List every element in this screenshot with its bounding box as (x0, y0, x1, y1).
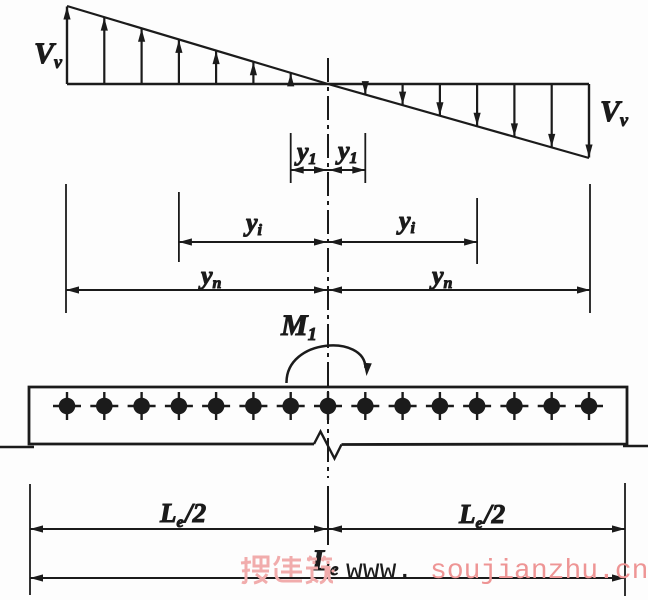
wire dim-bot-ext-left (29, 484, 31, 595)
wire dim-Le2-line (30, 528, 625, 530)
wire dim-y1-line (291, 169, 366, 171)
node bolt-11 (426, 392, 454, 420)
wire moment-arc M1 (286, 345, 365, 383)
node bolt-14 (538, 392, 566, 420)
node bolt-1 (53, 392, 81, 420)
wire flange-left (0, 446, 34, 448)
wire load-arrow-L1 (66, 7, 68, 85)
svg-text:Vv: Vv (34, 37, 63, 72)
node bolt-8 (314, 392, 342, 420)
wire load-arrow-R3 (439, 84, 441, 115)
svg-text:y1: y1 (335, 136, 358, 167)
wire dim-y1-ext-left (290, 133, 292, 183)
node bolt-12 (463, 392, 491, 420)
wire load-arrow-R5 (513, 84, 515, 136)
node bolt-5 (202, 392, 230, 420)
wire dim-y1-ext-right (364, 133, 366, 183)
node splice-plate (29, 387, 627, 445)
svg-text:y1: y1 (294, 137, 317, 168)
node bolt-3 (128, 392, 156, 420)
wire break-zigzag (314, 432, 342, 459)
wire dim-yi-ext-left (178, 192, 180, 262)
wire load-arrow-L4 (178, 40, 180, 84)
wire dim-yn-line (66, 289, 590, 291)
wire dim-yn-ext-left (65, 184, 67, 313)
wire load-arrow-R1 (364, 84, 366, 94)
wire load-arrow-R6 (551, 84, 553, 147)
node bolt-15 (575, 392, 603, 420)
node watermark (241, 557, 269, 583)
node bolt-4 (165, 392, 193, 420)
node bolt-9 (351, 392, 379, 420)
wire load-arrow-L7 (290, 73, 292, 84)
wire load-arrow-L6 (252, 62, 254, 84)
node centerline (327, 58, 329, 478)
node bolt-10 (389, 392, 417, 420)
svg-text:yi: yi (396, 206, 416, 237)
svg-text:Vv: Vv (600, 95, 629, 130)
wire load-arrow-R4 (476, 84, 478, 126)
wire dim-yi-ext-right (476, 198, 478, 264)
node bolt-7 (277, 392, 305, 420)
node bolt-13 (500, 392, 528, 420)
wire dim-Le-line (30, 577, 625, 579)
svg-text:yi: yi (243, 208, 263, 239)
wire flange-right (623, 445, 648, 447)
svg-text:www. soujianzhu.cn: www. soujianzhu.cn (346, 556, 648, 587)
svg-text:Le/2: Le/2 (159, 498, 206, 531)
node bolt-2 (90, 392, 118, 420)
wire load-arrow-L3 (141, 29, 143, 84)
wire load-arrow-L5 (215, 51, 217, 84)
wire dim-bot-ext-right (624, 483, 626, 596)
svg-text:yn: yn (198, 261, 222, 292)
svg-text:Le/2: Le/2 (458, 499, 505, 532)
svg-text:yn: yn (429, 261, 453, 292)
wire load-arrow-R7 (588, 84, 590, 158)
wire dim-yi-line (179, 241, 477, 243)
wire sloped-line (67, 6, 589, 158)
svg-text:M1: M1 (280, 309, 317, 344)
node bolt-6 (239, 392, 267, 420)
wire load-arrow-L2 (103, 18, 105, 84)
wire load-arrow-R2 (402, 84, 404, 105)
wire dim-yn-ext-right (589, 184, 591, 313)
node baseline (67, 83, 589, 85)
